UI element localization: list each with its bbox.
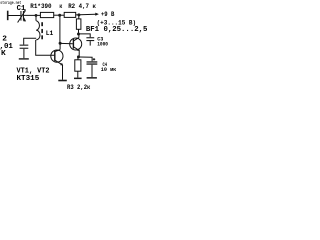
svg-text:1000: 1000 xyxy=(97,41,108,47)
label C3 xyxy=(97,35,104,42)
node D (collector VT2) xyxy=(77,33,80,36)
node junction R1/R2 xyxy=(58,14,61,17)
svg-text:КТ315: КТ315 xyxy=(17,75,40,83)
label R1*390 k xyxy=(30,3,62,10)
wire node to R3 xyxy=(77,57,79,60)
label R2 4,7 k xyxy=(68,3,96,10)
wire C4 to ground xyxy=(91,65,93,77)
wire R1 to R2 xyxy=(54,14,64,16)
svg-text:к: к xyxy=(59,3,62,10)
wire C3 lower lead xyxy=(89,41,91,46)
capacitor C3 xyxy=(86,37,94,41)
resistor R2 xyxy=(64,12,76,17)
transistor VT2 xyxy=(70,34,82,56)
svg-text:+9 В: +9 В xyxy=(101,11,115,18)
wire BF1 to node D xyxy=(78,29,80,33)
wire R3 to ground xyxy=(77,71,79,77)
label +9 V xyxy=(101,11,115,18)
svg-text:BF1 0,25...2,5: BF1 0,25...2,5 xyxy=(86,26,147,34)
inductor L1 xyxy=(36,21,43,40)
wire C2 to ground xyxy=(23,49,25,58)
svg-text:10 мк: 10 мк xyxy=(101,67,117,73)
wire R2 to supply arrow xyxy=(76,13,96,16)
node emitter VT2 / R3 / C4 xyxy=(77,55,80,58)
node junction L1/main rail xyxy=(35,14,38,17)
node junction R2/BF1 xyxy=(77,13,80,16)
ground C2 xyxy=(19,58,29,59)
wire input to C1 xyxy=(9,15,21,17)
inductor L1 lead from rail xyxy=(35,16,37,21)
label L1 xyxy=(46,30,54,38)
ground VT1 emitter xyxy=(58,80,67,82)
wire node to BF1 xyxy=(78,16,80,19)
label C1 xyxy=(17,5,26,13)
wire node A to VT2 base xyxy=(61,42,73,44)
label BF1 0,25...2,5 xyxy=(86,26,147,34)
resistor R1 xyxy=(40,12,53,17)
label VT1, VT2 xyxy=(17,67,50,75)
label C4 xyxy=(103,61,108,68)
input terminal X1 xyxy=(7,11,9,21)
wire L1 to VT1 base xyxy=(36,40,55,55)
wire C1 to R1 xyxy=(24,14,40,16)
label 1000 xyxy=(97,41,108,47)
wire node to C4 xyxy=(80,57,92,61)
label C2 value (2 ,01 K) xyxy=(0,36,13,59)
svg-text:R1*390: R1*390 xyxy=(30,3,51,10)
wire node D to C3 xyxy=(80,34,90,37)
node A junction (VT1 collector / VT2 base) xyxy=(59,42,62,45)
capacitor C1 (variable) xyxy=(18,9,27,22)
svg-text:L1: L1 xyxy=(46,30,54,38)
capacitor C4 xyxy=(87,61,98,64)
wire node A to VT1 collector xyxy=(59,43,61,49)
label (+3...15 V) xyxy=(97,19,137,26)
wire VT1 emitter down xyxy=(62,65,64,80)
ground R3 xyxy=(74,78,82,80)
ground C4 xyxy=(87,77,97,79)
svg-text:C1: C1 xyxy=(17,5,26,13)
wire C2 top to L1 xyxy=(24,38,37,44)
supply arrow xyxy=(95,13,99,16)
svg-text:R2 4,7 к: R2 4,7 к xyxy=(68,3,96,10)
headphone BF1 xyxy=(76,19,81,29)
watermark xyxy=(0,0,21,6)
plus sign C4 xyxy=(93,58,95,60)
label R3 2,2k xyxy=(67,84,91,91)
resistor R3 xyxy=(75,60,81,71)
transistor VT1 xyxy=(51,50,63,66)
capacitor C2 xyxy=(20,45,29,49)
wire rail dot down to node A xyxy=(59,16,61,43)
svg-text:К: К xyxy=(1,50,6,58)
label 10 mk xyxy=(101,67,117,73)
label KT315 xyxy=(17,75,40,83)
svg-text:R3 2,2к: R3 2,2к xyxy=(67,84,91,91)
